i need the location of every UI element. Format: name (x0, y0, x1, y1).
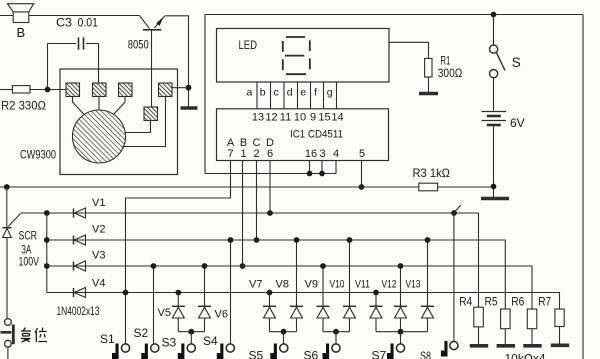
svg-text:R6: R6 (511, 295, 524, 309)
diode V5 (172, 293, 185, 332)
node SCR column / bus D (44, 210, 50, 216)
wire segment g (336, 82, 338, 109)
svg-text:V4: V4 (92, 278, 105, 290)
svg-text:S5: S5 (249, 349, 264, 359)
svg-text:S6: S6 (304, 349, 319, 359)
svg-text:0.01: 0.01 (78, 16, 99, 30)
wire segment c (283, 82, 285, 109)
node V8 / bus C (294, 237, 300, 243)
node pin2 / bus C (254, 237, 260, 243)
svg-text:SCR: SCR (19, 229, 38, 243)
node V5 / bus A (175, 290, 181, 296)
svg-text:S: S (512, 55, 521, 70)
node column/bus B (44, 263, 50, 269)
CW9300 die circle (73, 110, 126, 163)
node emitter/pad4 junction (186, 85, 192, 91)
7-segment digit (283, 37, 310, 74)
ground (419, 92, 438, 95)
wire speaker line to transistor collector (0, 15, 140, 17)
label fuwei (reset) (21, 328, 47, 343)
svg-text:B: B (17, 25, 26, 40)
node V13 / bus C (425, 237, 431, 243)
pad 3 (119, 83, 133, 97)
svg-text:IC1 CD4511: IC1 CD4511 (290, 129, 343, 141)
node S4 / bus C (228, 237, 234, 243)
ground (481, 197, 509, 201)
switch S7 (387, 344, 405, 359)
svg-text:V1: V1 (92, 197, 105, 209)
svg-text:100V: 100V (19, 255, 40, 269)
input labels A B C D (227, 137, 274, 149)
switch S8 (441, 341, 458, 357)
node column/bus C (44, 237, 50, 243)
bracket V11 V12 V13 to S7 (376, 331, 428, 333)
svg-text:V11: V11 (355, 279, 370, 291)
svg-text:V10: V10 (330, 279, 345, 291)
wire pin5 down (361, 161, 363, 188)
LED display box (217, 29, 390, 83)
pad 1 (66, 83, 80, 97)
svg-text:8050: 8050 (128, 38, 149, 52)
svg-text:R7: R7 (538, 295, 551, 309)
svg-text:LED: LED (239, 38, 258, 52)
svg-text:S8: S8 (420, 349, 431, 359)
VDD bar to pins 16 3 4 (205, 161, 336, 174)
wire pad1 to die (73, 97, 85, 115)
wire pin1 down to bus B (242, 161, 244, 267)
power rail top (205, 14, 583, 16)
svg-text:g: g (327, 87, 333, 99)
wire S8 column (453, 213, 455, 341)
wire pad4 to die (123, 97, 166, 147)
wire segment e (310, 82, 312, 109)
svg-text:C3: C3 (56, 16, 72, 30)
IC CW9300 box (60, 69, 178, 175)
wire pin6 down to bus D (269, 161, 271, 214)
bus A row (V4) (47, 293, 560, 310)
svg-text:V6: V6 (215, 309, 228, 321)
svg-text:S2: S2 (134, 326, 149, 340)
wire S4 column (230, 240, 232, 344)
svg-text:R2 330Ω: R2 330Ω (1, 99, 46, 113)
svg-text:300Ω: 300Ω (438, 66, 463, 80)
svg-text:1N4002x13: 1N4002x13 (57, 306, 100, 318)
svg-text:V13: V13 (406, 279, 421, 291)
svg-text:f: f (314, 87, 317, 99)
node SCR anode line (4, 184, 10, 190)
svg-text:9: 9 (310, 112, 316, 124)
diode V3 (74, 261, 86, 271)
pad 4 (159, 83, 173, 97)
wire pin2 down to bus C (256, 161, 258, 241)
op IC1 CD4511 box (217, 109, 389, 161)
node R2/C3 junction (45, 87, 51, 93)
svg-text:V9: V9 (305, 279, 318, 291)
svg-text:14: 14 (331, 112, 343, 124)
bus C row (V2) (47, 240, 506, 309)
node S8 / bus D (451, 210, 457, 216)
svg-text:6: 6 (267, 148, 273, 160)
wire base of 8050 down to pad5 (151, 30, 153, 107)
svg-text:R3 1kΩ: R3 1kΩ (413, 166, 451, 180)
resistor R7 (551, 309, 569, 345)
svg-text:5: 5 (359, 148, 365, 160)
switch S6 (323, 344, 341, 359)
svg-text:S1: S1 (100, 332, 115, 346)
resistor R3 (419, 183, 438, 191)
svg-text:3: 3 (319, 148, 325, 160)
svg-text:7: 7 (227, 148, 233, 160)
node S2 / bus B (151, 263, 157, 269)
node rail/switch junction (491, 12, 497, 18)
rail left drop to VDD bar (204, 15, 206, 174)
diode V1 (74, 208, 86, 218)
resistor R5 (497, 309, 515, 346)
svg-text:c: c (274, 87, 279, 99)
wire segment f (323, 82, 325, 109)
node V7 / bus A (267, 290, 273, 296)
node V12 / bus B (398, 263, 404, 269)
svg-text:a: a (247, 87, 253, 99)
svg-text:e: e (300, 87, 306, 99)
svg-text:R4: R4 (459, 295, 472, 309)
svg-text:V3: V3 (92, 250, 105, 262)
diode V11 (370, 293, 383, 332)
svg-text:1: 1 (240, 148, 246, 160)
svg-text:R5: R5 (485, 295, 498, 309)
wire SCR anode down (6, 187, 8, 228)
svg-text:15: 15 (318, 112, 330, 124)
svg-text:10: 10 (294, 112, 306, 124)
bracket V5 V6 to S3 (178, 331, 204, 333)
diode V8 (290, 240, 303, 332)
svg-text:S4: S4 (203, 334, 218, 348)
resistor R2 (0, 86, 66, 93)
svg-text:13: 13 (252, 112, 264, 124)
wire LED box to R1 (389, 42, 429, 58)
bus D row (V1) (21, 212, 479, 214)
wire emitter to ground rail (165, 16, 189, 108)
svg-text:4: 4 (333, 148, 339, 160)
wire C3 right down to pad2 (98, 44, 100, 84)
node V11 / bus A (373, 290, 379, 296)
node S1 column / bus A (123, 290, 129, 296)
diode V9 (317, 266, 330, 332)
rail right side down (582, 15, 584, 359)
svg-text:S3: S3 (162, 336, 177, 350)
pin numbers 13 12 11 10 9 15 14 (252, 112, 344, 124)
diode V4 (74, 288, 86, 298)
pad 5 (144, 107, 158, 121)
wire R3 to battery ground node (438, 186, 494, 188)
bracket V7 V8 to S5 (270, 331, 297, 333)
svg-text:V5: V5 (158, 307, 171, 319)
diode V10 (343, 240, 356, 332)
node V10 / bus C (347, 237, 353, 243)
svg-text:2: 2 (253, 148, 259, 160)
battery 6V (482, 112, 507, 126)
svg-text:d: d (287, 87, 293, 99)
pin numbers 7 1 2 6 / 16 3 4 / 5 (227, 148, 365, 160)
svg-text:b: b (260, 87, 266, 99)
bracket V9 V10 to S6 (323, 331, 350, 333)
svg-text:12: 12 (265, 112, 277, 124)
switch S4 (217, 344, 235, 359)
node V6 / bus B (202, 263, 208, 269)
diode V13 (421, 240, 434, 332)
pin16 wire (309, 161, 311, 174)
diode V12 (394, 266, 407, 332)
switch S3 (178, 344, 196, 359)
bus B row (V3) (47, 266, 532, 309)
svg-text:10kΩx4: 10kΩx4 (505, 352, 546, 359)
SCR gate column (46, 213, 48, 293)
svg-text:CW9300: CW9300 (20, 148, 56, 162)
diode V7 (263, 293, 276, 332)
svg-text:16: 16 (305, 148, 317, 160)
svg-text:S7: S7 (372, 349, 387, 359)
SCR V (3A 100V) (3, 214, 21, 319)
bus A jog from pin7 (126, 161, 231, 345)
node pin1 / bus B (240, 263, 246, 269)
resistor R4 (470, 213, 488, 346)
wire pad3 to die (114, 97, 126, 115)
wire segment d (297, 82, 299, 109)
speaker B (8, 4, 34, 23)
node V9 / bus B (320, 263, 326, 269)
svg-text:V12: V12 (382, 279, 397, 291)
svg-text:V8: V8 (276, 279, 289, 291)
svg-text:V2: V2 (92, 224, 105, 236)
capacitor C3 (48, 37, 99, 49)
wire segment a (256, 82, 258, 109)
svg-text:V7: V7 (249, 279, 262, 291)
pushbutton reset (5, 319, 12, 326)
wire R3 line left part (0, 186, 419, 188)
switch S2 (141, 344, 159, 359)
segment letters a-g (247, 87, 333, 99)
switch S5 (270, 344, 288, 359)
svg-text:11: 11 (280, 112, 291, 124)
pin3 wire (321, 161, 323, 174)
node pin3 (319, 171, 325, 177)
pad 2 (93, 83, 107, 97)
wire R1 to ground (428, 77, 430, 92)
resistor R6 (523, 309, 541, 346)
ground (181, 106, 198, 109)
wire C3 left down to R2 node (47, 44, 49, 90)
tick at S8 node (454, 205, 461, 213)
wire battery to ground node (493, 125, 495, 197)
switch S1 (112, 344, 130, 359)
node pin16 (307, 171, 313, 177)
transistor Q1 8050 (140, 16, 165, 30)
wire pad5 to die (125, 121, 150, 133)
wire pad4 to junction (172, 87, 189, 89)
node pin6 / bus D (267, 210, 273, 216)
wire pad2 to die (98, 97, 100, 111)
node battery/R3 junction (491, 184, 497, 190)
switch S (490, 15, 506, 111)
svg-text:6V: 6V (510, 116, 525, 130)
wire segment b (270, 82, 272, 109)
wire S2 column (153, 266, 155, 344)
node pin5 junction (359, 184, 365, 190)
resistor R1 (425, 58, 432, 77)
diode V6 (198, 266, 211, 332)
diode V2 (74, 235, 86, 245)
